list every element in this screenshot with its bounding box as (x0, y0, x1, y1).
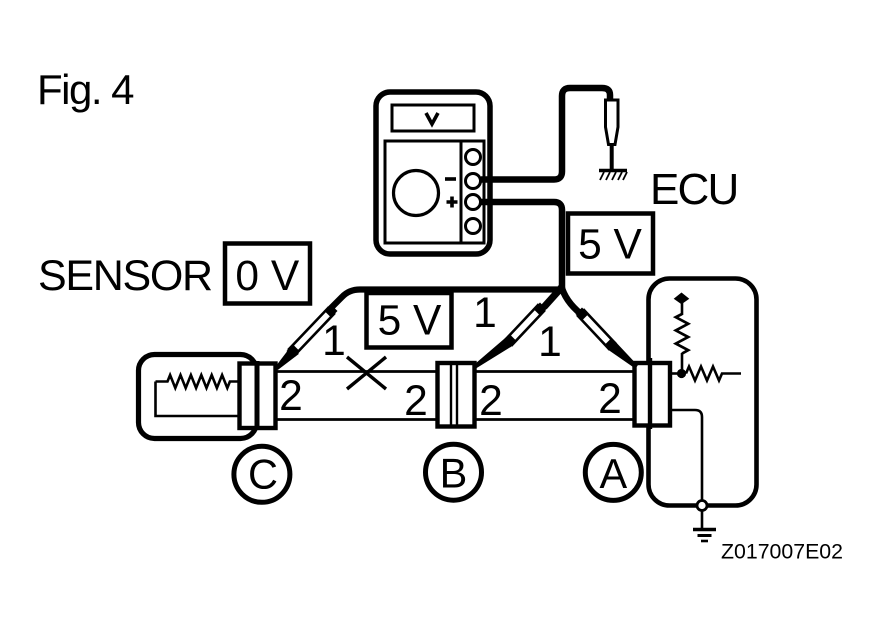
ECU pull-up resistor (vertical zigzag) (676, 314, 688, 354)
wire: pin2 bus C to B (276, 418, 437, 421)
svg-text:2: 2 (479, 378, 503, 425)
svg-text:1: 1 (473, 290, 497, 337)
multimeter body (376, 92, 490, 254)
svg-text:A: A (599, 450, 627, 497)
ECU block outline (649, 279, 757, 506)
svg-text:Fig. 4: Fig. 4 (37, 66, 134, 113)
svg-text:Z017007E02: Z017007E02 (721, 540, 843, 564)
ground lead below ECU (701, 511, 704, 530)
ECU supply arrow (674, 293, 690, 305)
multimeter terminal 1 (466, 150, 481, 165)
node A circle (585, 444, 641, 500)
wire: pin1 bus C to B (276, 370, 437, 373)
svg-text:1: 1 (322, 318, 346, 365)
svg-text:2: 2 (279, 373, 303, 420)
measurement box 5 V (middle) (367, 293, 452, 348)
test probe to B (473, 303, 546, 369)
wire: pin1 bus B to A (475, 370, 635, 373)
multimeter terminal 4 (466, 219, 481, 234)
test probe C (275, 305, 337, 370)
ground probe tip (610, 145, 614, 169)
wire: negative lead from meter to ground probe (481, 88, 610, 180)
svg-text:0 V: 0 V (235, 253, 299, 300)
wire: pin2 bus B to A (475, 418, 635, 421)
minus sign (445, 177, 456, 181)
svg-text:5 V: 5 V (578, 222, 642, 269)
ECU left edge through connector A (648, 358, 652, 429)
sensor internal wire loop (156, 382, 240, 417)
wire: probe C lead (horizontal to junction) (330, 290, 562, 310)
wire: positive lead from meter down to probe junction (481, 202, 562, 291)
measurement box 5 V (right) (568, 214, 653, 274)
multimeter panel divider (460, 141, 463, 243)
sensor resistor (zigzag) (156, 375, 240, 388)
ground probe body (606, 100, 619, 145)
ECU pin2 ground wire (670, 410, 702, 500)
connector B (438, 363, 475, 427)
junction of test leads (544, 287, 562, 307)
sensor body (139, 355, 257, 439)
svg-text:5 V: 5 V (378, 298, 442, 345)
measurement box 0 V (225, 244, 310, 304)
ground symbol (chassis, top right) (599, 169, 627, 172)
multimeter front panel (385, 141, 484, 243)
svg-text:2: 2 (598, 376, 622, 423)
multimeter V symbol (426, 113, 438, 124)
connector A (635, 363, 671, 426)
plus sign (447, 197, 458, 208)
multimeter terminal 2 (negative) (466, 174, 481, 189)
svg-text:1: 1 (538, 319, 562, 366)
multimeter display window (392, 105, 474, 131)
ECU node junction dot (670, 372, 680, 375)
multimeter terminal 3 (positive) (466, 195, 481, 210)
svg-text:B: B (440, 449, 468, 496)
ground symbol (bottom) (693, 528, 716, 532)
svg-text:2: 2 (404, 378, 428, 425)
svg-text:SENSOR: SENSOR (38, 252, 212, 300)
svg-text:C: C (248, 451, 278, 498)
break mark X on pin1 wire (347, 357, 386, 389)
node C circle (234, 446, 290, 502)
ECU series resistor (horizontal zigzag) (686, 367, 741, 381)
multimeter dial (394, 171, 439, 216)
connector C (240, 364, 276, 429)
test probe to A (576, 308, 638, 369)
ECU ground terminal circle (697, 501, 707, 511)
node B circle (426, 444, 482, 500)
svg-text:ECU: ECU (650, 165, 738, 214)
